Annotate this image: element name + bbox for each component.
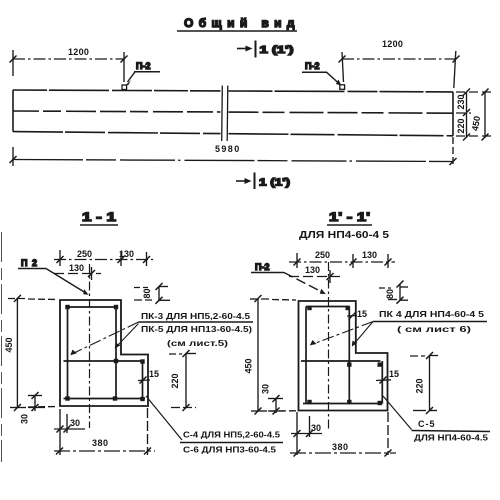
dimension 30 (bottom cover, left vertical, right section) — [261, 384, 286, 415]
label П 2 with leader to axis — [18, 258, 89, 295]
dimension 5980 beam length — [10, 137, 457, 166]
svg-text:1 (1'): 1 (1') — [260, 45, 294, 56]
svg-text:220: 220 — [456, 118, 466, 133]
svg-text:С-6 ДЛЯ НП3-60-4.5: С-6 ДЛЯ НП3-60-4.5 — [183, 445, 276, 455]
labels С-4 / С-6 fraction with leader — [146, 396, 283, 455]
svg-text:1200: 1200 — [68, 47, 89, 57]
dimension row 130 (to axis, right section) — [289, 265, 340, 283]
svg-text:С-4 ДЛЯ НП5,2-60-4.5: С-4 ДЛЯ НП5,2-60-4.5 — [183, 430, 280, 440]
svg-text:380: 380 — [92, 438, 109, 448]
section title 1' - 1' — [299, 210, 390, 241]
centerline axis (dash-dot) — [89, 264, 91, 428]
dimension 30 (bottom, horizontal) — [54, 409, 85, 455]
svg-text:250: 250 — [315, 250, 330, 260]
embedded plate П-2 marker left — [122, 85, 127, 90]
svg-text:1200: 1200 — [382, 39, 403, 49]
dimension 1200 right — [339, 39, 460, 88]
stirrup cage lines (right section) — [301, 307, 382, 404]
dimension 220 (right of section 1-1) — [169, 350, 196, 411]
dimension 30 (bottom horizontal, right section) — [291, 412, 322, 455]
svg-text:380: 380 — [332, 442, 349, 452]
rebar section squares (right section) — [307, 306, 382, 405]
svg-text:15: 15 — [389, 369, 399, 379]
svg-text:ПК-3 ДЛЯ НП5,2-60-4.5: ПК-3 ДЛЯ НП5,2-60-4.5 — [141, 311, 250, 321]
beam break lines — [221, 86, 224, 142]
page scan edge artifact — [1, 232, 3, 462]
svg-text:1 - 1: 1 - 1 — [82, 210, 116, 224]
svg-text:ДЛЯ НП4-60-4 5: ДЛЯ НП4-60-4 5 — [299, 230, 390, 241]
svg-text:30: 30 — [261, 384, 271, 394]
svg-text:П-2: П-2 — [305, 61, 319, 71]
svg-text:С-5: С-5 — [418, 419, 436, 429]
svg-text:15: 15 — [149, 369, 159, 379]
svg-text:80: 80 — [385, 289, 395, 299]
svg-text:(см лист.5): (см лист.5) — [167, 338, 228, 348]
svg-text:130: 130 — [305, 265, 320, 275]
dimension 450 beam height — [470, 89, 489, 141]
section cut mark 1 (1') bottom — [236, 173, 290, 190]
beam outline: right half — [229, 91, 454, 136]
dimension 450 (left of section 1'-1') — [244, 295, 297, 415]
dimension 220 (right of section 1'-1') — [410, 352, 438, 414]
section cut mark 1 (1') top — [237, 41, 294, 58]
dimension 230/220 beam height parts — [456, 89, 470, 141]
dimension 450 (left of section 1-1) — [4, 295, 58, 411]
dimension row 250 / 130 — [54, 249, 153, 266]
svg-text:ПК 4 ДЛЯ НП4-60-4 5: ПК 4 ДЛЯ НП4-60-4 5 — [379, 309, 484, 319]
dimension 15 (cover, lower right of 1-1) — [138, 369, 159, 384]
section title 1 - 1 — [80, 210, 118, 225]
dimension 30 (bottom cover, left vertical) — [20, 392, 46, 424]
svg-text:П-2: П-2 — [136, 61, 150, 71]
svg-text:Общий вид: Общий вид — [184, 16, 300, 30]
dimension row 250 / 130 (right section) — [289, 250, 395, 268]
svg-text:П-2: П-2 — [255, 262, 269, 272]
svg-text:30: 30 — [20, 414, 30, 424]
svg-text:( см лист 6): ( см лист 6) — [397, 324, 471, 334]
svg-text:15: 15 — [357, 309, 367, 319]
beam right-end dimension extensions — [456, 92, 491, 136]
svg-text:5980: 5980 — [215, 144, 241, 154]
embedded plate П-2 marker right — [340, 85, 345, 90]
svg-text:450: 450 — [4, 337, 14, 352]
svg-text:80: 80 — [142, 288, 152, 298]
title: Общий вид — [177, 16, 300, 31]
svg-text:130: 130 — [362, 250, 377, 260]
svg-text:1' - 1': 1' - 1' — [329, 210, 370, 224]
dimension row 130 (to axis) — [54, 263, 101, 280]
svg-text:450: 450 — [470, 115, 482, 132]
label П-2 (right section) with leader — [251, 262, 326, 294]
svg-text:1 (1'): 1 (1') — [259, 178, 290, 189]
section 1-1 outer outline (L shape) — [60, 300, 148, 406]
dimension 80 (right section) — [379, 281, 408, 304]
svg-text:ПК-5 ДЛЯ НП13-60-4.5): ПК-5 ДЛЯ НП13-60-4.5) — [141, 324, 252, 334]
label ПК 4 fraction with leaders — [310, 309, 487, 347]
dimension 15 (cover, lower right section) — [376, 369, 399, 384]
dimension 380 (bottom width 1-1) — [54, 408, 155, 455]
label П-2 left with leader — [126, 61, 160, 85]
svg-text:220: 220 — [170, 373, 180, 388]
dimension 380 (bottom width, right section) — [290, 412, 396, 457]
dimension 80 (plate above section) — [134, 283, 170, 304]
dimension 1200 left — [10, 47, 128, 82]
svg-text:250: 250 — [77, 249, 92, 259]
labels ПК-3 / ПК-5 fraction with leaders — [70, 311, 253, 355]
svg-text:ДЛЯ НП4-60-4.5: ДЛЯ НП4-60-4.5 — [414, 433, 488, 443]
svg-text:П 2: П 2 — [21, 258, 38, 268]
section 1'-1' outer outline — [299, 301, 388, 411]
centerline axis (right section) — [328, 262, 330, 431]
stirrup cage lines — [64, 307, 146, 399]
svg-text:450: 450 — [244, 358, 254, 373]
label С-5 fraction with leader — [383, 396, 490, 443]
dimension 15 (top cover, right section) — [347, 309, 367, 320]
label П-2 right with leader — [302, 61, 341, 86]
svg-text:230: 230 — [456, 94, 466, 109]
beam outline: left half — [13, 90, 221, 134]
svg-text:220: 220 — [415, 378, 425, 393]
svg-text:130: 130 — [69, 263, 84, 273]
svg-text:30: 30 — [70, 418, 80, 428]
rebar section squares — [65, 305, 144, 401]
